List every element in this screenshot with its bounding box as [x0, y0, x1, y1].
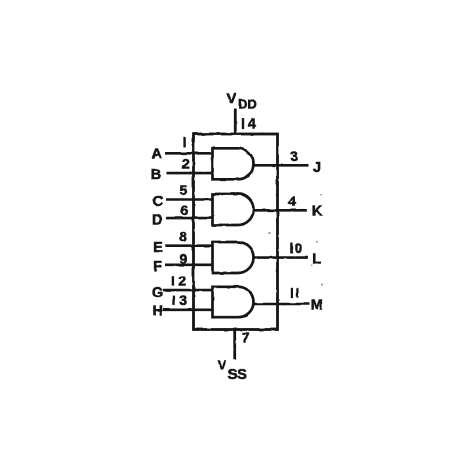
svg-text:M: M [311, 298, 323, 314]
svg-text:H: H [153, 304, 163, 320]
svg-text:9: 9 [180, 251, 188, 267]
svg-text:L: L [312, 251, 321, 267]
svg-text:B: B [151, 167, 161, 183]
svg-text:2: 2 [178, 272, 186, 288]
svg-text:V: V [227, 90, 237, 107]
svg-text:A: A [151, 147, 162, 163]
svg-text:3: 3 [290, 148, 298, 164]
svg-text:E: E [153, 240, 163, 256]
svg-text:3: 3 [179, 292, 187, 308]
svg-text:6: 6 [181, 202, 189, 218]
svg-text:DD: DD [238, 97, 257, 112]
svg-text:F: F [153, 259, 162, 275]
svg-text:7: 7 [242, 331, 250, 346]
svg-text:4: 4 [288, 193, 296, 209]
svg-text:D: D [152, 212, 162, 228]
svg-text:0: 0 [294, 240, 302, 256]
svg-text:G: G [152, 285, 163, 301]
svg-text:K: K [312, 203, 323, 219]
svg-text:SS: SS [228, 367, 248, 383]
svg-text:5: 5 [180, 182, 188, 198]
svg-text:V: V [218, 358, 227, 373]
svg-text:J: J [313, 160, 321, 176]
svg-text:2: 2 [182, 155, 190, 171]
svg-text:4: 4 [248, 116, 256, 132]
svg-text:8: 8 [179, 229, 187, 245]
svg-text:C: C [153, 194, 164, 210]
